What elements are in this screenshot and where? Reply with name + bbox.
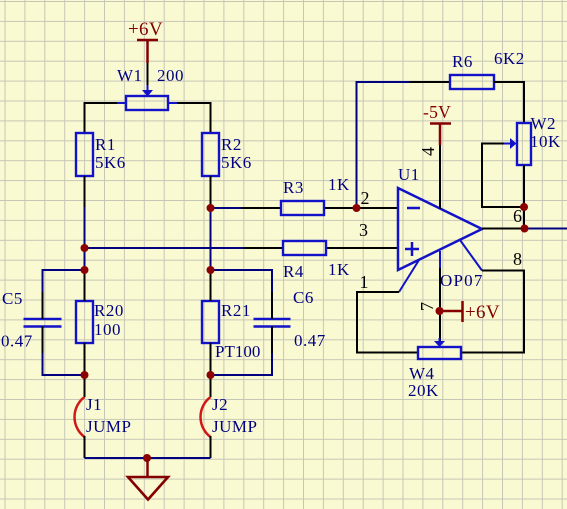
- svg-text:20K: 20K: [408, 381, 439, 400]
- jumper J2: [201, 397, 211, 437]
- wire W1 left to R1 top: [85, 103, 118, 133]
- wire pin 7 down to W4 wiper: [439, 251, 441, 268]
- wire W2 wiper loop: [482, 144, 524, 208]
- node R1/C5 junction: [81, 266, 89, 274]
- capacitor C5: [24, 319, 62, 327]
- wire W1 right to R2 top: [177, 103, 211, 133]
- resistor R1: [76, 133, 93, 176]
- svg-text:R4: R4: [283, 262, 304, 281]
- svg-text:OP07: OP07: [440, 271, 484, 290]
- wire -5V to pin 4: [439, 145, 441, 209]
- op-amp U1: [398, 188, 482, 270]
- jumper J1: [75, 397, 85, 437]
- svg-text:3: 3: [359, 220, 368, 240]
- ground: [128, 458, 168, 500]
- wire non-inverting input line (pin 3): [85, 247, 244, 249]
- potentiometer W4: [418, 338, 461, 359]
- svg-text:R21: R21: [221, 301, 251, 320]
- wire pin 1 to W4 left: [399, 260, 419, 292]
- svg-text:R2: R2: [221, 135, 242, 154]
- wire R1 bottom down: [84, 176, 86, 207]
- svg-text:R3: R3: [283, 178, 304, 197]
- wire pin 8 to W4 right: [460, 240, 482, 271]
- svg-text:1K: 1K: [328, 175, 350, 194]
- svg-text:1K: 1K: [328, 260, 350, 279]
- node C6/J2 junction: [207, 371, 215, 379]
- wire C6 loop: [211, 270, 273, 375]
- svg-text:JUMP: JUMP: [86, 417, 131, 436]
- svg-text:100: 100: [94, 320, 121, 339]
- wire R6 right to W2 top: [494, 82, 524, 123]
- svg-text:J1: J1: [86, 395, 102, 414]
- node W2 wiper junction: [520, 203, 528, 211]
- node R2/C6 junction: [207, 266, 215, 274]
- potentiometer W1: [117, 85, 177, 110]
- svg-text:7: 7: [417, 302, 437, 311]
- resistor R20: [76, 301, 93, 343]
- wire feedback from pin2 to R6: [357, 82, 411, 208]
- wire bottom rail: [85, 457, 211, 459]
- svg-text:U1: U1: [398, 165, 420, 184]
- svg-text:5K6: 5K6: [221, 153, 252, 172]
- svg-text:J2: J2: [212, 395, 228, 414]
- resistor R4: [283, 241, 326, 255]
- svg-text:C6: C6: [293, 288, 314, 307]
- svg-text:8: 8: [513, 249, 522, 269]
- svg-text:R6: R6: [452, 52, 473, 71]
- svg-text:R1: R1: [95, 135, 116, 154]
- wire output pin 6: [482, 228, 525, 230]
- power -5V: [423, 102, 451, 145]
- svg-text:10K: 10K: [530, 132, 561, 151]
- svg-text:4: 4: [418, 147, 438, 156]
- potentiometer W2: [504, 123, 531, 165]
- svg-text:+6V: +6V: [128, 19, 163, 40]
- wire R21 pins: [210, 270, 212, 397]
- power +6V right: [440, 301, 500, 323]
- svg-text:JUMP: JUMP: [212, 417, 257, 436]
- svg-text:+6V: +6V: [465, 302, 500, 323]
- svg-text:0.47: 0.47: [294, 331, 326, 350]
- svg-text:0.47: 0.47: [1, 332, 33, 351]
- wire R20 pins: [84, 270, 86, 397]
- node pin7 junction: [436, 307, 444, 315]
- capacitor C6: [254, 319, 291, 327]
- node output junction: [521, 225, 529, 233]
- svg-text:W2: W2: [531, 114, 557, 133]
- svg-text:2: 2: [361, 188, 370, 208]
- wire +6V to W1 wiper: [147, 63, 149, 86]
- wire R2 bottom down: [210, 176, 212, 208]
- node ground junction: [143, 454, 151, 462]
- resistor R6: [450, 75, 494, 89]
- wire W2 bottom to output: [523, 165, 525, 229]
- svg-text:200: 200: [157, 66, 184, 85]
- resistor R3: [281, 201, 324, 215]
- svg-text:C5: C5: [2, 289, 23, 308]
- power +6V top: [128, 19, 163, 63]
- wire C5 loop: [43, 270, 85, 375]
- svg-text:W1: W1: [117, 66, 143, 85]
- resistor R21: [202, 301, 219, 343]
- node R1/R4 junction: [81, 244, 89, 252]
- wire J2 bottom: [210, 436, 212, 458]
- wire J1 bottom: [84, 436, 86, 458]
- node feedback junction: [353, 204, 361, 212]
- node C5/J1 junction: [81, 371, 89, 379]
- svg-text:-5V: -5V: [423, 102, 451, 122]
- wire inverting input line (pin 2): [211, 207, 242, 209]
- resistor R2: [202, 133, 219, 176]
- svg-text:R20: R20: [94, 301, 124, 320]
- node R2/R3 junction: [207, 204, 215, 212]
- svg-text:1: 1: [360, 272, 369, 292]
- svg-text:5K6: 5K6: [95, 153, 126, 172]
- svg-text:6K2: 6K2: [494, 49, 525, 68]
- svg-text:PT100: PT100: [215, 342, 260, 361]
